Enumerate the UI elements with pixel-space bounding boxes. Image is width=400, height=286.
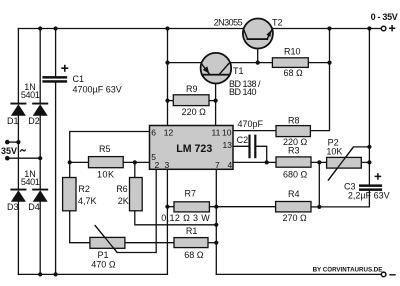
label plus C3 [375, 173, 382, 180]
node dot rail-pin12 [165, 26, 169, 30]
svg-text:2N3055: 2N3055 [214, 17, 243, 27]
capacitor C1 plates [42, 76, 67, 79]
wire AC input lower [7, 157, 40, 159]
node dot rail-R10 vertical [327, 26, 331, 30]
svg-text:T2: T2 [272, 17, 283, 27]
wire column B upper [39, 29, 41, 103]
svg-text:680 Ω: 680 Ω [283, 169, 308, 179]
node output terminal minus [381, 272, 386, 277]
node dot bottom rail B [38, 272, 42, 276]
svg-text:470pF: 470pF [238, 119, 264, 129]
svg-text:220 Ω: 220 Ω [182, 107, 207, 117]
svg-text:R5: R5 [99, 144, 111, 154]
wire left column A lower [17, 201, 19, 274]
svg-text:12: 12 [164, 128, 174, 138]
node dot R3-P2 [317, 160, 321, 164]
node terminal AC upper [5, 140, 10, 145]
potentiometer P2 wiper diagonal [328, 147, 369, 180]
node dot R6 bottom [214, 223, 218, 227]
wire C3 bottom to R4 node [319, 191, 369, 207]
potentiometer P1 470R body [90, 237, 125, 248]
svg-text:10K: 10K [97, 170, 115, 180]
wire top rail [18, 28, 381, 30]
node dot R7 right R4 [214, 205, 218, 209]
label minus bottom right [389, 274, 395, 275]
wire R10 right to vertical [308, 62, 329, 64]
node output terminal plus [381, 26, 386, 31]
svg-text:68 Ω: 68 Ω [284, 68, 304, 78]
diode D4 [32, 189, 48, 191]
wire far right vertical rail to C3 [368, 29, 370, 185]
wire R3-P2 node down to R4 node [318, 162, 320, 207]
capacitor C3 plates [359, 184, 382, 187]
svg-text:68 Ω: 68 Ω [184, 250, 204, 260]
wire C2 right drop to pin4 wire [256, 146, 266, 162]
wire IC pin13 to C2 [233, 145, 248, 147]
node dot AC upper junction [16, 140, 20, 144]
svg-text:7: 7 [215, 160, 220, 170]
resistor R7 0.12R [174, 202, 209, 212]
wire P1 right to R1 left [125, 242, 174, 244]
transistor T1 BD138 [201, 53, 232, 84]
wire pin12 vertical from rail to IC [167, 29, 169, 126]
wire R3 right to P2 left [311, 161, 327, 163]
node dot T1 left [165, 61, 169, 65]
wire bottom rail right segment [216, 273, 381, 275]
wire R7 right stub [209, 206, 216, 208]
wire R4 left long [216, 206, 275, 208]
node dot R5 left [68, 160, 72, 164]
wire bottom rail left segment [18, 273, 167, 275]
wire IC pin7 down to bottom rail [215, 169, 217, 274]
wire IC pin3 down [166, 169, 168, 274]
svg-text:10K: 10K [326, 146, 342, 156]
wire T1 collector to R10 [231, 62, 272, 64]
resistor R4 270R [276, 202, 311, 212]
svg-text:C2: C2 [237, 135, 249, 145]
wire AC input upper [7, 141, 18, 143]
svg-text:270 Ω: 270 Ω [283, 213, 308, 223]
svg-text:BD 140: BD 140 [229, 87, 257, 97]
svg-text:D1: D1 [7, 116, 19, 126]
svg-text:T1: T1 [233, 66, 244, 76]
resistor R2 4.7K vertical [63, 178, 76, 211]
wire T1 base down to IC pin11 [215, 76, 217, 126]
node dot rail-C3 vertical [367, 26, 371, 30]
svg-text:R2: R2 [78, 184, 90, 194]
wire column C below C1 [55, 83, 57, 275]
svg-text:470 Ω: 470 Ω [91, 260, 116, 270]
wire left column A middle [17, 115, 19, 188]
node dot P2 right [367, 160, 371, 164]
potentiometer P2 10K body [327, 157, 362, 168]
wire R7 left stub [167, 206, 174, 208]
svg-text:2,2µF 63V: 2,2µF 63V [348, 191, 390, 201]
resistor R6 2K vertical [130, 178, 143, 211]
potentiometer P1 wiper overlay [95, 226, 117, 253]
wire IC pin6 to R5 left [70, 132, 150, 163]
node dot bottom rail C [54, 272, 58, 276]
wire P1 wiper to IC pin2 [117, 169, 156, 252]
wire left column A upper [17, 29, 19, 103]
wire IC pin10 to R8 [233, 130, 276, 132]
potentiometer P2 wiper overlay [328, 147, 353, 180]
node dot AC lower junction [38, 156, 42, 160]
label plus top right [389, 25, 395, 31]
wire T1 emitter left [168, 62, 201, 64]
wire column B middle [39, 115, 41, 188]
svg-text:R6: R6 [116, 184, 128, 194]
wire R6 top [134, 162, 136, 177]
transistor T2 2N3055 [243, 19, 273, 49]
node dot T2 base [256, 61, 260, 65]
diode D2 [32, 103, 48, 105]
wire P2 right stub [361, 161, 369, 163]
node dot rail-C [54, 26, 58, 30]
wire T2 base vertical [257, 40, 259, 63]
svg-text:13: 13 [223, 140, 233, 150]
svg-text:4700µF 63V: 4700µF 63V [73, 85, 122, 95]
label plus C1 [61, 65, 68, 72]
svg-text:4: 4 [228, 160, 233, 170]
node terminal AC lower [5, 156, 10, 161]
wire R2 bottom to P1 left [70, 211, 90, 243]
potentiometer P1 wiper diagonal [95, 226, 117, 253]
wire right vertical rail-R10-R8 [311, 29, 330, 131]
node dot R9 right [214, 99, 218, 103]
wire R9 left [168, 100, 174, 102]
svg-text:LM 723: LM 723 [176, 143, 212, 155]
node dot rail-B [38, 26, 42, 30]
diode D1 [10, 103, 26, 105]
resistor R1 68R [174, 238, 208, 248]
svg-text:6: 6 [151, 128, 156, 138]
svg-text:R1: R1 [186, 226, 198, 236]
svg-text:P1: P1 [98, 250, 109, 260]
svg-text:3: 3 [165, 160, 170, 170]
node dot R7 left [165, 205, 169, 209]
svg-text:35V: 35V [1, 146, 17, 156]
wire R6 bottom to pin7 vertical [135, 211, 217, 225]
wire R5 right to IC pin5 [123, 161, 149, 163]
svg-text:BY CORVINTAURUS.DE: BY CORVINTAURUS.DE [313, 266, 383, 273]
svg-text:5401: 5401 [21, 177, 40, 187]
svg-text:D3: D3 [7, 202, 19, 212]
resistor R10 68R [272, 58, 308, 68]
svg-text:0,12 Ω 3 W: 0,12 Ω 3 W [161, 213, 210, 223]
resistor R9 220R [173, 95, 209, 106]
svg-text:R7: R7 [185, 188, 197, 198]
resistor R5 10K [89, 157, 124, 168]
svg-text:0 - 35V: 0 - 35V [371, 12, 398, 22]
node dot R4-C3 [317, 205, 321, 209]
diode D3 [10, 189, 26, 191]
svg-text:R9: R9 [186, 84, 198, 94]
svg-text:R10: R10 [284, 47, 301, 57]
svg-text:4,7K: 4,7K [78, 196, 97, 206]
node dot C2-pin4 [265, 160, 269, 164]
wire column B lower [39, 201, 41, 274]
svg-text:D4: D4 [28, 202, 40, 212]
svg-text:C1: C1 [73, 74, 85, 84]
svg-text:R3: R3 [288, 145, 300, 155]
svg-text:2: 2 [155, 160, 160, 170]
label tilde [20, 150, 25, 152]
svg-text:R4: R4 [288, 189, 300, 199]
svg-text:D2: D2 [28, 116, 40, 126]
resistor R8 220R [276, 126, 310, 137]
node dot R1 right [214, 241, 218, 245]
node dot R9 left [165, 99, 169, 103]
svg-text:R8: R8 [288, 116, 300, 126]
svg-text:11: 11 [212, 128, 221, 138]
wire R2 top [69, 162, 71, 177]
svg-text:2K: 2K [118, 196, 129, 206]
wire R1 right stub [208, 242, 216, 244]
capacitor C2 plates [248, 135, 250, 159]
wire R4 right stub [311, 206, 319, 208]
svg-text:5401: 5401 [21, 90, 40, 100]
op IC LM723 body [150, 126, 234, 170]
resistor R3 680R [276, 157, 311, 167]
node dot R5 right [133, 160, 137, 164]
wire R9 right [209, 100, 216, 102]
wire IC pin4 to R3 [233, 161, 276, 163]
svg-text:10: 10 [222, 128, 232, 138]
wire column C above C1 [55, 29, 57, 77]
node dot R10 right [327, 61, 331, 65]
wire R5 left stub [70, 161, 89, 163]
node dot P2 wiper [367, 145, 371, 149]
